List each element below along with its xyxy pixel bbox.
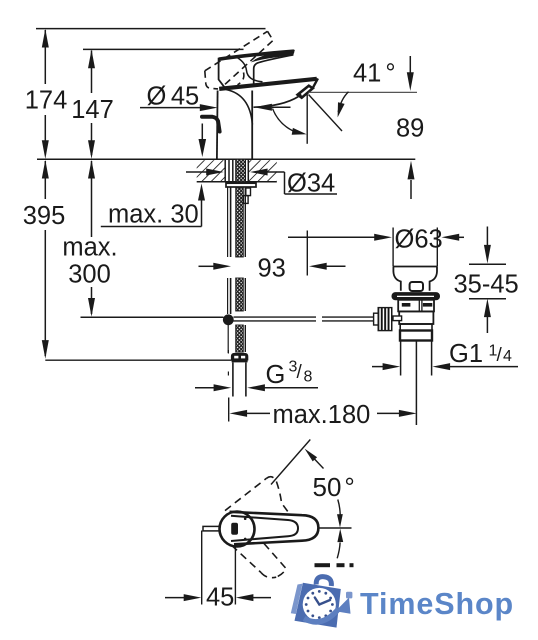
svg-text:89: 89 bbox=[396, 115, 424, 143]
dimension 35-45 bbox=[454, 227, 519, 334]
braid middle segment bbox=[236, 278, 244, 311]
dimension 93 bbox=[199, 231, 346, 283]
leader arrow to ray bbox=[305, 449, 318, 462]
svg-text:35-45: 35-45 bbox=[454, 271, 519, 299]
svg-text:/: / bbox=[297, 362, 303, 383]
flange (black) bbox=[392, 293, 440, 300]
valve body ring 2 bbox=[399, 311, 433, 324]
G3/8 threaded tube bbox=[233, 363, 246, 397]
svg-text:300: 300 bbox=[68, 261, 111, 289]
swing arc upper bbox=[338, 500, 340, 515]
alignment dots bbox=[244, 517, 247, 520]
lever underside bbox=[254, 55, 294, 84]
arc inside body bbox=[226, 90, 252, 125]
lever tip wedge bbox=[251, 50, 295, 63]
stub pin bbox=[203, 526, 220, 531]
spout underside curve bbox=[254, 97, 299, 108]
svg-text:G: G bbox=[266, 361, 286, 389]
svg-text:41°: 41° bbox=[353, 60, 396, 88]
valve top cap bell bbox=[393, 266, 437, 268]
hose fitting steps bbox=[246, 188, 251, 196]
supply hose column below deck bbox=[228, 188, 251, 354]
bag handle bbox=[316, 577, 331, 586]
tailpipe centerline bbox=[415, 341, 417, 426]
braid upper segment bbox=[236, 188, 244, 257]
50 ray bbox=[271, 440, 310, 485]
lever top edge (thick) bbox=[219, 51, 294, 59]
dimension Ø34 bbox=[186, 169, 337, 198]
395 bottom reference line bbox=[45, 359, 231, 361]
handle centerline right bbox=[319, 527, 352, 529]
bag stripe bbox=[291, 584, 303, 614]
dimension max.180 bbox=[229, 398, 417, 430]
right angle arc with arrow bbox=[338, 92, 348, 112]
pop-up rod wall lines lower segment bbox=[227, 278, 229, 314]
rod knurled nut at valve bbox=[374, 308, 402, 331]
svg-text:Ø34: Ø34 bbox=[287, 170, 335, 198]
svg-text:Ø45: Ø45 bbox=[147, 83, 200, 111]
valve body ring 1 with slots bbox=[398, 300, 434, 312]
G3/8 hose end nut bbox=[232, 354, 248, 362]
max.300 reach line bbox=[81, 316, 224, 318]
spout top edge (thick) bbox=[219, 79, 317, 89]
svg-text:4: 4 bbox=[503, 348, 512, 365]
label G1 1/4 bbox=[372, 340, 518, 370]
deck surface line bbox=[37, 158, 415, 160]
TimeShop logo bbox=[291, 577, 514, 628]
body left edge bbox=[219, 58, 225, 88]
svg-text:50°: 50° bbox=[313, 472, 355, 502]
faucet body and spout bbox=[217, 50, 318, 159]
svg-text:93: 93 bbox=[258, 255, 286, 283]
pop-up rod wall lines upper segment bbox=[227, 188, 229, 258]
handle outer outline bbox=[230, 512, 319, 545]
spout tip face bbox=[313, 78, 318, 87]
svg-text:Ø63: Ø63 bbox=[395, 226, 443, 254]
cartridge dome curve bbox=[238, 58, 263, 82]
pop-up waste valve bbox=[392, 267, 440, 426]
dashed handle rotated down bbox=[232, 544, 287, 578]
svg-text:TimeShop: TimeShop bbox=[360, 587, 514, 621]
vertical ray from spout outlet bbox=[306, 95, 308, 144]
deck cross-section bbox=[197, 160, 277, 182]
ball joint of pop-up rod bbox=[223, 314, 234, 325]
clock ticks bbox=[305, 590, 334, 619]
dashed handle rotated up bbox=[225, 477, 290, 515]
clock face bbox=[303, 588, 336, 621]
stem hole bbox=[231, 523, 238, 535]
svg-text:147: 147 bbox=[71, 96, 114, 124]
dimension Ø63 bbox=[288, 226, 464, 267]
flow arrow at body base bbox=[199, 124, 207, 158]
label max.30 with leader bbox=[101, 184, 205, 229]
svg-text:8: 8 bbox=[304, 369, 313, 386]
dimension Ø45 bbox=[140, 83, 291, 112]
dimension 45 bbox=[165, 531, 271, 612]
pivot circle bbox=[220, 512, 255, 547]
svg-text:max.: max. bbox=[62, 234, 117, 262]
dimension 395 bbox=[23, 160, 66, 359]
label G 3/8 bbox=[264, 359, 318, 390]
svg-text:395: 395 bbox=[23, 202, 66, 230]
plug knob bbox=[410, 282, 423, 291]
svg-text:174: 174 bbox=[25, 87, 68, 115]
reference line (147 level) bbox=[83, 48, 244, 50]
dimension 89 bbox=[396, 56, 424, 199]
body right edge bbox=[251, 91, 253, 159]
dimension 174 bbox=[25, 29, 68, 159]
clock hands bbox=[319, 600, 330, 605]
break dashes bbox=[315, 563, 354, 567]
swoosh bbox=[304, 609, 339, 622]
50 degree annotation bbox=[271, 440, 355, 559]
41 degree annotation bbox=[273, 60, 418, 144]
detached square bbox=[346, 592, 352, 599]
valve body ring 3 bbox=[400, 324, 432, 331]
dimension 147 bbox=[71, 50, 114, 159]
svg-text:45: 45 bbox=[206, 584, 234, 612]
svg-text:G1: G1 bbox=[449, 340, 483, 368]
dashed lever (raised position) bbox=[205, 31, 273, 89]
pop-up rod hook on body bbox=[202, 117, 220, 132]
dimension max.300 bbox=[62, 160, 117, 317]
reference line top (174 level) bbox=[36, 28, 266, 30]
left swing arc with arrow bbox=[273, 109, 301, 134]
tube centerline dashes bbox=[227, 350, 229, 376]
braid lower segment bbox=[236, 325, 244, 352]
faucet shank in deck hole bbox=[225, 159, 248, 181]
G3/8 diameter arrows bbox=[195, 384, 265, 391]
handle plan view bbox=[203, 512, 318, 547]
aerator bbox=[298, 86, 313, 98]
swing arc lower bbox=[337, 543, 340, 559]
tailpipe walls bbox=[400, 341, 402, 376]
svg-text:max. 30: max. 30 bbox=[108, 201, 199, 229]
pop-up horizontal rod bbox=[234, 317, 375, 321]
diagonal ray bbox=[309, 95, 343, 132]
inner grip outline bbox=[231, 516, 298, 541]
mounting nut under deck bbox=[226, 183, 256, 187]
svg-text:/: / bbox=[497, 345, 503, 366]
svg-text:max.180: max.180 bbox=[273, 401, 371, 429]
bag body bbox=[295, 583, 341, 628]
